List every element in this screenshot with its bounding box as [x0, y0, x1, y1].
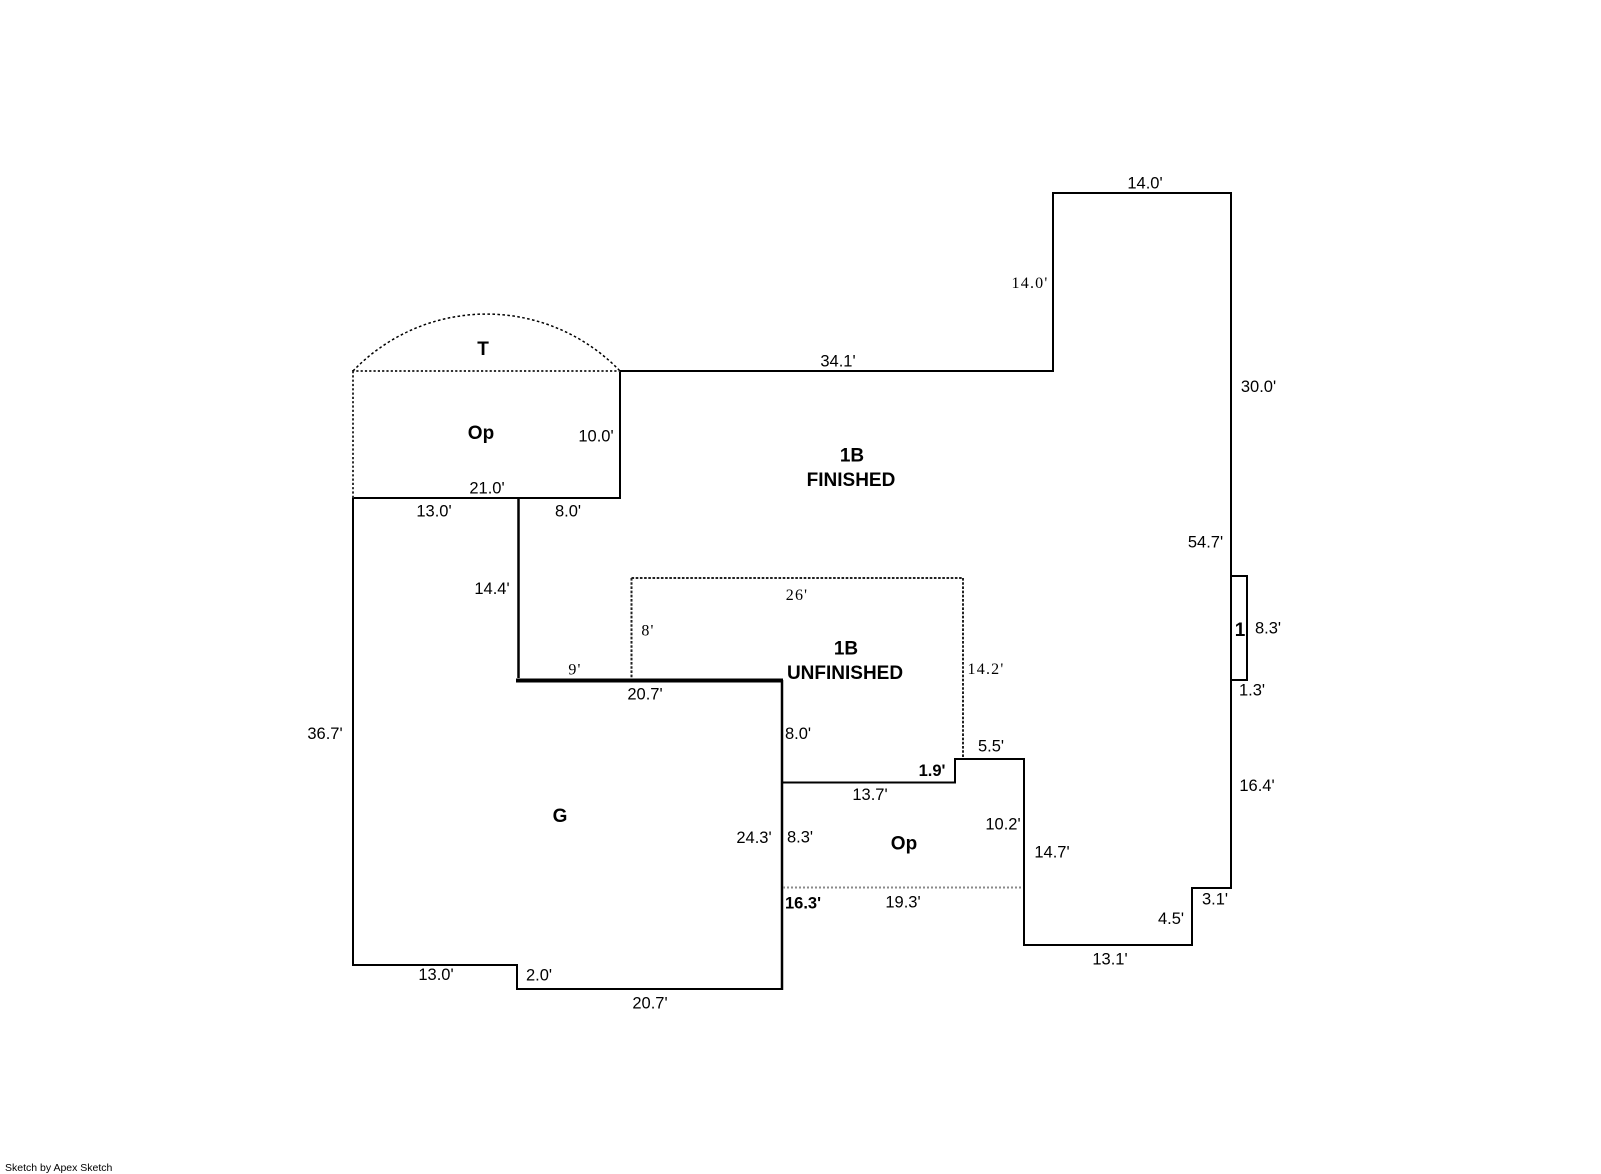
svg-text:G: G: [553, 806, 568, 827]
wall right 54.7': [1230, 192, 1232, 889]
svg-text:21.0': 21.0': [469, 480, 504, 498]
wall 34.1' top of 1B FINISHED: [619, 370, 1054, 372]
wall 1.9': [954, 758, 956, 784]
svg-text:13.0': 13.0': [416, 503, 451, 521]
svg-text:9': 9': [568, 662, 581, 679]
svg-text:FINISHED: FINISHED: [807, 470, 896, 491]
svg-text:1.9': 1.9': [919, 762, 946, 780]
svg-text:14.0': 14.0': [1012, 275, 1049, 292]
svg-text:14.4': 14.4': [474, 580, 509, 598]
wall 4.5': [1191, 887, 1193, 946]
svg-text:4.5': 4.5': [1158, 910, 1184, 928]
svg-text:1B: 1B: [834, 639, 858, 660]
svg-text:24.3': 24.3': [736, 829, 771, 847]
svg-text:Sketch by Apex Sketch: Sketch by Apex Sketch: [5, 1162, 113, 1174]
svg-text:54.7': 54.7': [1188, 534, 1223, 552]
wall 5.5': [954, 758, 1025, 760]
dotted 8' left of 1B UNFINISHED: [631, 578, 633, 679]
svg-text:Op: Op: [891, 834, 917, 855]
wall 13.1': [1023, 944, 1193, 946]
svg-text:20.7': 20.7': [632, 995, 667, 1013]
wall 10.0' right side of Op porch: [619, 370, 621, 499]
svg-text:UNFINISHED: UNFINISHED: [787, 663, 903, 684]
svg-text:2.0': 2.0': [526, 967, 552, 985]
svg-text:5.5': 5.5': [978, 738, 1004, 756]
svg-text:8': 8': [641, 623, 654, 640]
svg-text:30.0': 30.0': [1241, 378, 1276, 396]
svg-text:16.3': 16.3': [785, 895, 821, 913]
svg-text:14.2': 14.2': [968, 661, 1005, 678]
dotted 19.3' bottom of lower Op: [783, 887, 1023, 889]
wall 14.4': [517, 499, 520, 678]
wall 14.0' left side of top bump: [1052, 192, 1054, 372]
wall 14.0' top of bump: [1052, 192, 1232, 194]
wall 20.7' thick party wall: [516, 679, 783, 683]
svg-text:13.0': 13.0': [418, 966, 453, 984]
svg-text:19.3': 19.3': [885, 894, 920, 912]
svg-text:14.0': 14.0': [1127, 175, 1162, 193]
wall 20.7' bottom: [516, 988, 783, 990]
dotted left edge of Op porch: [352, 371, 354, 498]
dashed arc of T bay: [353, 314, 620, 371]
wall 3.1': [1191, 887, 1232, 889]
svg-text:36.7': 36.7': [307, 725, 342, 743]
svg-text:10.0': 10.0': [578, 428, 613, 446]
dotted 26' top of 1B UNFINISHED: [632, 577, 964, 579]
svg-text:8.0': 8.0': [785, 725, 811, 743]
svg-text:13.7': 13.7': [852, 786, 887, 804]
wall 13.7': [781, 782, 956, 784]
wall 13.0' bottom: [352, 964, 518, 966]
svg-text:13.1': 13.1': [1092, 951, 1127, 969]
svg-text:Op: Op: [468, 423, 494, 444]
svg-text:8.0': 8.0': [555, 503, 581, 521]
dotted 14.2' right of 1B UNFINISHED: [962, 578, 964, 758]
wall 2.0' step: [516, 964, 518, 990]
svg-text:26': 26': [786, 587, 808, 604]
svg-text:3.1': 3.1': [1202, 891, 1228, 909]
wall 24.3' right wall of G: [781, 680, 784, 990]
svg-text:20.7': 20.7': [627, 686, 662, 704]
wall 14.7': [1023, 758, 1025, 946]
svg-text:10.2': 10.2': [985, 816, 1020, 834]
svg-text:1.3': 1.3': [1239, 682, 1265, 700]
svg-text:14.7': 14.7': [1034, 844, 1069, 862]
wall 36.7' left wall of G: [352, 497, 354, 966]
dotted top edge of Op porch: [352, 370, 620, 372]
svg-text:1B: 1B: [840, 446, 864, 467]
svg-text:8.3': 8.3': [787, 829, 813, 847]
svg-text:T: T: [477, 339, 489, 360]
svg-text:8.3': 8.3': [1255, 620, 1281, 638]
stoop box 1 on right wall: [1231, 576, 1247, 680]
wall 21.0' bottom of Op porch: [352, 497, 621, 499]
svg-text:34.1': 34.1': [820, 353, 855, 371]
svg-text:1: 1: [1235, 620, 1246, 641]
svg-text:16.4': 16.4': [1239, 777, 1274, 795]
